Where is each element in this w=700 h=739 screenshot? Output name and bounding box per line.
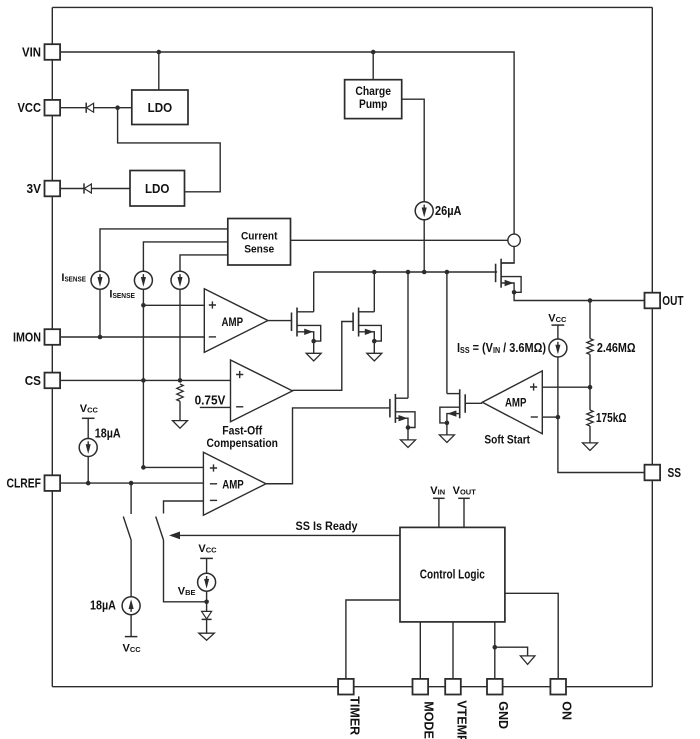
svg-text:Compensation: Compensation [207,436,278,450]
svg-text:Soft Start: Soft Start [484,433,530,447]
LDO U1 (top) [132,90,188,125]
wire: diode D2 to LDO2 input [91,188,130,190]
wire: 3V pin to diode D2 [60,188,84,190]
VCC supply bar (ISS source) [552,324,565,326]
wire: I3 to CS line [179,289,181,380]
AMP2 minus sign (mid) [210,483,217,485]
svg-text:LDO: LDO [145,182,170,196]
pin TIMER [338,679,354,695]
ground (GND pin) [520,656,535,665]
wire: control logic to MODE pin [419,622,421,679]
wire: divider node to soft-start plus [542,386,590,388]
wire: AMP2 plus input [143,466,203,468]
control logic block [400,527,505,622]
fast-off plus sign [236,371,243,378]
wire: I2 down tap line [142,289,144,467]
junction: IMON / I1 [98,335,103,340]
svg-text:GND: GND [496,701,510,729]
wire: control logic to VTEMP pin [452,622,454,679]
svg-text:VBE: VBE [178,585,196,597]
pin VCC [45,100,61,116]
wire: bottom border rail [52,686,652,688]
wire: control logic to GND pin [494,622,496,679]
svg-text:18µA: 18µA [95,426,121,441]
wire: VIN tap down to LDO1 [158,52,160,90]
op-amp soft start (points left) [482,371,542,434]
wire: VCC bar to 18uA source [87,418,89,438]
wire: AMP2 output to M3 gate [266,408,390,484]
pin IMON [45,329,61,345]
svg-text:LDO: LDO [148,101,173,115]
ground (CS resistor) [173,421,188,429]
current source I7 ISS [549,339,567,357]
wire: diode D1 to LDO1 input [94,107,132,109]
svg-text:CS: CS [25,374,41,388]
resistor (CS 0.75V divider) [177,384,183,401]
soft-start plus sign [530,383,537,390]
svg-text:26µA: 26µA [435,203,462,218]
wire: CLREF to switch S1 [130,483,132,514]
wire: M0 source to OUT line [514,292,644,300]
wire: 18uA source to CLREF line [87,456,89,483]
svg-text:Pump: Pump [359,99,387,111]
diode D3 (VBE clamp) [202,611,212,619]
wire: CS line to fast-off plus [60,379,230,381]
wire: divider node to 175k [589,387,591,410]
junction: VCC LDO node [115,105,120,110]
junction: gate bus taps [372,270,449,275]
wire: AMP2 lower input to switch S2 [164,501,204,514]
transistor M3 [390,394,415,430]
current source I3 ISENSE [171,271,189,289]
junction: AMP1 plus tap [141,303,146,308]
current sense block U4 [228,219,291,266]
wire: VCC node to LDO2 output loop [118,108,221,192]
wire: current sense in 2 [143,242,227,272]
wire: M1 source to ground [313,341,315,353]
junction circle (gate drive node) [508,234,520,246]
charge pump U3 [345,80,402,119]
VOUT supply bar (control logic) [458,497,470,499]
wire: M4 source to ground [446,423,448,435]
svg-text:VCC: VCC [18,101,42,115]
wire: VOUT bar to control logic [463,498,465,527]
pin SS [645,465,661,481]
svg-text:VCC: VCC [123,643,142,655]
wire: M2 source to ground [373,341,375,353]
wire: left border rail [51,7,53,686]
wire: soft-start minus input [542,416,558,418]
current source I5 18uA [79,439,97,457]
junction: soft-start minus node [556,415,561,420]
AMP2 plus sign [210,464,217,471]
wire: I1 to IMON line [99,289,101,337]
AMP2 minus sign (low) [210,499,217,501]
pin VTEMP [445,679,461,695]
transistor M2 [353,308,381,344]
junction: AMP2 plus corner [141,465,146,470]
pin MODE [413,679,429,695]
wire: M4 drain to bus [446,272,448,394]
wire: CLREF line to AMP2 [60,482,203,484]
svg-text:MODE: MODE [422,701,436,739]
wire: current sense output to gate node [291,239,508,241]
pin CS [45,373,61,389]
svg-text:VCC: VCC [548,313,567,325]
transistor M0 (output FET) [496,259,521,295]
wire: AMP1 plus input [143,304,204,306]
current source I6 18uA (up arrow) [122,597,140,615]
wire: 0.75V reference stub to fast-off minus [200,406,231,408]
wire: gate node circle to M0 drain [501,247,514,264]
wire: gate drive bus [314,271,497,273]
pin CLREF [45,475,61,491]
resistor 175kohm [587,410,593,426]
current source I8 (VBE) [198,573,216,591]
wire: ISS source to SS pin [558,357,645,473]
junction: CLREF taps [86,481,134,486]
svg-text:SS Is Ready: SS Is Ready [296,519,358,533]
pin OUT [645,293,661,309]
svg-text:ISS = (VIN / 3.6MΩ): ISS = (VIN / 3.6MΩ) [457,340,546,355]
svg-text:CLREF: CLREF [7,477,42,491]
VIN supply bar (control logic) [433,497,445,499]
VCC supply bar (below 18uA) [125,636,138,638]
wire: VIN tap down to Charge Pump [372,52,374,80]
wire: VIN bar to control logic [438,498,440,527]
wire: control logic to TIMER pin [346,600,400,679]
junction: GND branch [493,645,498,650]
soft-start minus sign [531,416,538,418]
LDO U2 (bottom) [130,171,185,207]
wire: VCC bar to ISS source [557,325,559,339]
svg-text:175kΩ: 175kΩ [596,410,627,425]
VCC supply bar (VBE source) [200,557,213,559]
wire: M1 drain to bus [313,272,315,312]
wire: 2.46M to divider node [589,355,591,388]
pin ON [550,679,566,695]
SS Is Ready arrow [169,532,400,540]
op-amp fast-off compensation [231,360,293,422]
wire: GND branch to ground symbol [495,647,528,656]
current source I4 26uA circle [415,202,433,220]
wire: soft-start amp output to M4 gate [465,402,482,404]
switch S2 [156,517,164,541]
wire: control logic to ON pin [505,593,558,679]
svg-text:VCC: VCC [80,403,99,415]
wire: VIN rail to charge pump and output FET [60,52,514,234]
AMP1 minus sign [209,336,216,338]
svg-text:3V: 3V [27,182,42,196]
wire: 26uA source to gate bus [423,220,425,272]
svg-text:OUT: OUT [662,294,683,308]
wire: top border rail [52,6,652,8]
wire: VCC bar to VBE source [206,558,208,573]
resistor 2.46Mohm [587,339,593,355]
pin VIN [45,44,61,60]
VCC supply bar (18uA top) [82,417,95,419]
svg-text:VIN: VIN [22,45,41,59]
wire: OUT to 2.46M resistor [589,301,591,339]
ground (M1 source) [306,353,321,361]
switch S1 [123,517,131,541]
wire: switch S1 to lower 18uA source [130,540,132,597]
ground (M3 source) [401,440,416,448]
wire: 175k to ground [589,426,591,443]
svg-text:ISENSE: ISENSE [61,272,86,284]
svg-text:IMON: IMON [13,330,41,344]
ground (M2 source) [367,353,382,361]
op-amp AMP2 [203,452,266,515]
svg-text:Control Logic: Control Logic [420,568,485,582]
pin 3V [45,181,61,197]
current source I1 ISENSE [91,271,109,289]
wire: VBE source to clamp node [206,591,208,611]
wire: charge pump output to 26uA source [402,99,425,202]
wire: current sense in 1 [100,229,228,272]
junction: OUT line / 2.46M resistor [588,298,593,303]
wire: M3 drain to bus [407,272,409,398]
svg-text:VIN: VIN [430,485,445,497]
transistor M1 [292,308,321,344]
junction: VIN rail taps [157,50,376,55]
wire: diode D3 to ground [206,619,208,633]
ground (175k) [583,443,598,451]
current source I2 ISENSE [134,271,152,289]
svg-text:ON: ON [560,701,574,720]
svg-text:ISENSE: ISENSE [109,289,135,301]
wire: current sense in 3 [180,255,228,272]
wire: right border rail [651,7,653,686]
svg-text:TIMER: TIMER [347,696,361,735]
wire: M2 drain to bus [373,272,375,312]
diode D1 (VCC) [86,103,93,113]
ground (VBE clamp) [199,633,215,640]
svg-text:Charge: Charge [355,86,391,98]
svg-text:SS: SS [668,466,682,480]
wire: M3 source to ground [407,428,409,440]
svg-text:VCC: VCC [198,543,217,555]
op-amp AMP1 [204,289,268,353]
fast-off minus sign [236,406,243,408]
wire: AMP1 output to M1 gate [268,320,292,322]
wire: VCC pin to diode D1 [60,107,86,109]
svg-text:AMP: AMP [222,477,244,491]
svg-text:0.75V: 0.75V [195,393,226,407]
svg-text:VOUT: VOUT [453,485,477,497]
pin GND [487,679,503,695]
svg-text:AMP: AMP [505,395,527,409]
svg-text:VTEMP: VTEMP [454,700,468,739]
svg-text:2.46MΩ: 2.46MΩ [597,340,636,355]
ground (M4 source) [439,435,454,443]
AMP1 plus sign [209,301,216,308]
wire: IMON line [60,336,204,338]
svg-text:Sense: Sense [244,243,274,255]
diode D2 (3V) [84,183,91,193]
svg-text:18µA: 18µA [90,598,116,613]
wire: fast-off output to M2 gate [293,322,354,391]
junction: SS divider node [588,385,593,390]
svg-text:Current: Current [241,230,278,242]
transistor M4 [440,389,465,425]
junction: CS taps [141,378,182,383]
junction: VBE clamp node [204,600,209,605]
svg-text:AMP: AMP [222,315,244,329]
wire: switch S2 to VBE clamp node [164,540,207,602]
wire: resistor to ground [179,401,181,420]
wire: lower 18uA source to VCC bar [130,615,132,637]
